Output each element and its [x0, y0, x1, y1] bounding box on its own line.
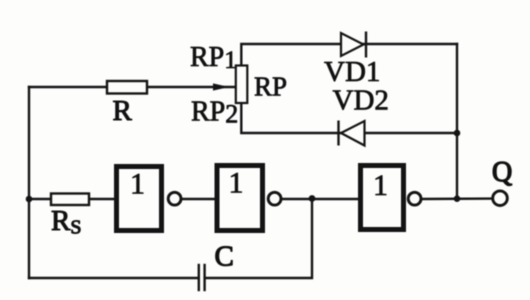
svg-text:VD1: VD1 — [324, 56, 380, 88]
svg-text:RP: RP — [254, 72, 287, 102]
svg-text:RP2: RP2 — [191, 97, 238, 129]
svg-text:R: R — [113, 95, 133, 127]
svg-text:VD2: VD2 — [333, 85, 389, 117]
svg-text:1: 1 — [373, 169, 388, 202]
svg-text:RS: RS — [51, 205, 81, 239]
svg-text:Q: Q — [492, 157, 512, 188]
svg-text:1: 1 — [130, 168, 145, 201]
svg-text:C: C — [215, 241, 234, 273]
svg-text:RP1: RP1 — [190, 42, 237, 74]
svg-text:1: 1 — [229, 167, 244, 200]
